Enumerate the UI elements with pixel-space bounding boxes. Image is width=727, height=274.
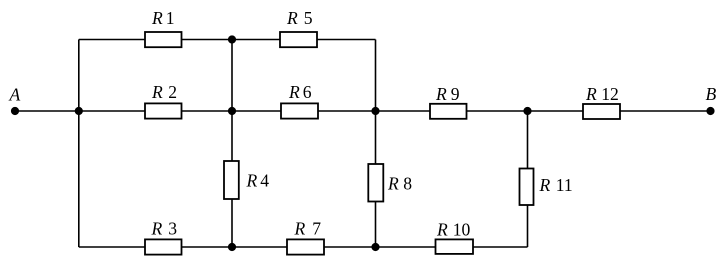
resistor R10 — [436, 220, 474, 254]
resistor R12 — [583, 84, 620, 119]
node B (terminal dot and label) — [706, 84, 717, 115]
svg-text:A: A — [9, 85, 21, 105]
junction dot: middle row at x=375.5 — [371, 107, 379, 115]
resistor R11 (vertical) — [520, 169, 573, 206]
svg-text:R11: R11 — [539, 175, 573, 195]
resistor R3 — [145, 219, 182, 255]
svg-text:R10: R10 — [436, 220, 471, 240]
svg-text:R12: R12 — [585, 84, 619, 104]
wire: left vertical bus at x=78.8 — [78, 40, 80, 248]
resistor R8 (vertical) — [368, 164, 412, 202]
resistor R2 — [145, 82, 182, 119]
junction dot: top row at x=232 — [228, 35, 236, 43]
junction dot: bottom row at x=232 — [228, 243, 236, 251]
wire: top row — [79, 39, 376, 41]
resistor R6 — [281, 82, 318, 119]
junction dot: middle row at x=527.5 — [523, 107, 531, 115]
resistor R5 — [280, 8, 317, 47]
svg-text:B: B — [706, 84, 717, 104]
wire: bottom row — [79, 246, 528, 248]
junction dot: left bus / middle row — [75, 107, 83, 115]
junction dot: middle row at x=232 — [228, 107, 236, 115]
wire: middle row from A to B — [15, 110, 711, 112]
resistor R9 — [430, 84, 467, 119]
node A (terminal dot and label) — [9, 85, 21, 116]
resistor R4 (vertical) — [224, 161, 269, 199]
wire: vertical bus at x=232 (through R4) — [231, 40, 233, 248]
resistor R1 — [145, 8, 182, 47]
resistor R7 — [287, 219, 324, 255]
junction dot: bottom row at x=375.5 — [371, 243, 379, 251]
wire: vertical bus at x=527.5 (through R11) — [527, 111, 529, 247]
wire: vertical bus at x=375.5 (through R8) — [375, 40, 377, 248]
